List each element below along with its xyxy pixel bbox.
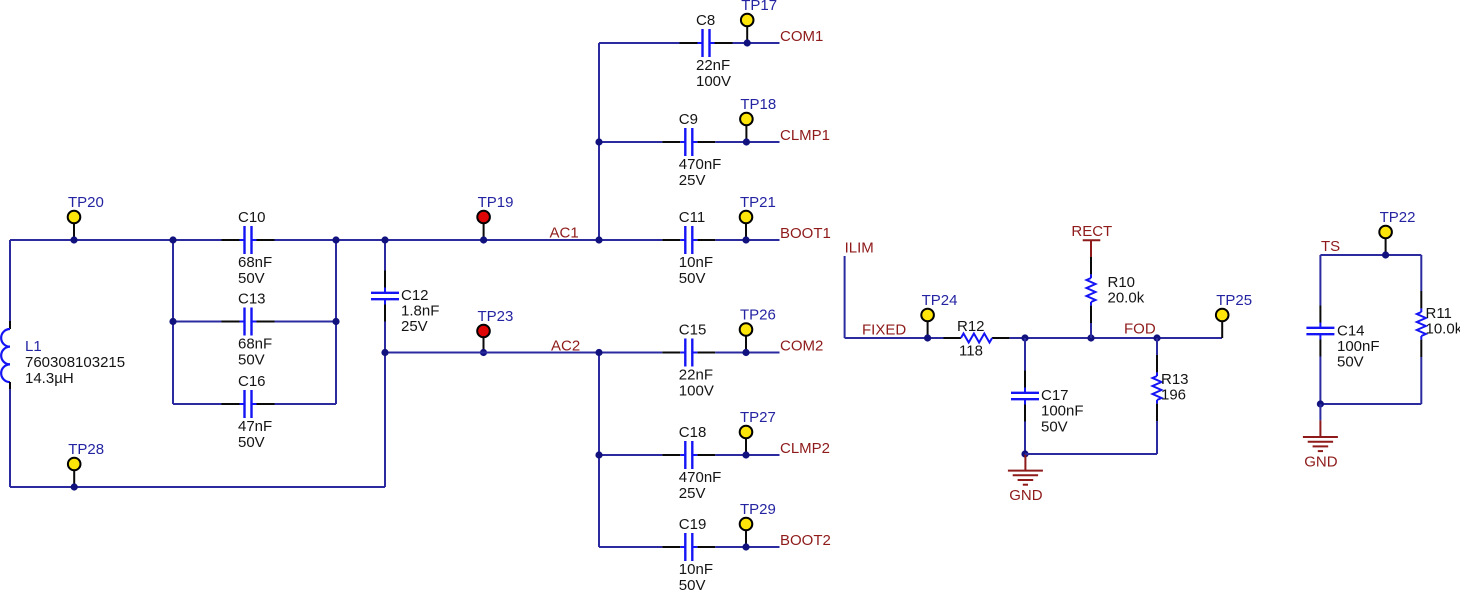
wire TS right rail lower x1421.3 [1420, 357, 1422, 404]
wire left rail upper x10 [9, 240, 11, 321]
junction TP27 tap [742, 451, 749, 458]
junction AC2 from C12 [381, 349, 388, 356]
svg-text:25V: 25V [401, 318, 428, 335]
net label FOD [1124, 321, 1156, 338]
test point TP17 [741, 0, 777, 43]
junction C17 top tap [1021, 334, 1028, 341]
svg-text:50V: 50V [679, 270, 706, 287]
junction TP29 tap [742, 543, 749, 550]
svg-text:196: 196 [1161, 386, 1186, 403]
junction TP26 tap [742, 349, 749, 356]
wire C18 row left y455 [599, 454, 662, 456]
wire bottom rail C17-R13 y454 [1025, 453, 1157, 455]
wire TS right rail upper x1421.3 [1420, 255, 1422, 291]
capacitor C15 [662, 322, 715, 400]
svg-text:COM2: COM2 [780, 338, 823, 355]
svg-text:CLMP2: CLMP2 [780, 440, 830, 457]
power port RECT [1071, 223, 1112, 257]
test point TP21 [740, 194, 776, 240]
svg-text:22nF: 22nF [679, 367, 713, 384]
svg-text:100nF: 100nF [1041, 403, 1084, 420]
svg-text:10nF: 10nF [679, 561, 713, 578]
resistor R11 [1417, 291, 1460, 357]
junction R13 top tap [1153, 334, 1160, 341]
wire TS left rail lower x1320.4 [1319, 357, 1321, 405]
junction C9 branch [595, 138, 602, 145]
svg-text:TP24: TP24 [922, 292, 958, 309]
svg-text:470nF: 470nF [679, 469, 722, 486]
wire AC2 row y352.5 [385, 352, 662, 354]
svg-text:C17: C17 [1041, 387, 1069, 404]
svg-text:14.3µH: 14.3µH [25, 370, 74, 387]
svg-text:C11: C11 [679, 209, 705, 226]
svg-text:50V: 50V [679, 577, 706, 594]
svg-text:BOOT2: BOOT2 [780, 532, 831, 549]
svg-text:C16: C16 [238, 373, 266, 390]
svg-text:TP20: TP20 [68, 194, 104, 211]
ground GND [1303, 420, 1338, 470]
junction C13 right [332, 318, 339, 325]
svg-text:470nF: 470nF [679, 156, 722, 173]
svg-text:118: 118 [959, 342, 983, 359]
junction TP20 tap [70, 236, 77, 243]
svg-text:50V: 50V [238, 352, 265, 369]
junction C17 bottom GND tap [1021, 450, 1028, 457]
svg-text:TP26: TP26 [740, 307, 776, 324]
svg-text:68nF: 68nF [238, 336, 272, 353]
svg-text:C12: C12 [401, 287, 429, 304]
test point TP29 [740, 501, 776, 547]
wire C17 rail lower x1025 [1024, 422, 1026, 455]
wire C13 row right y321.5 [275, 321, 337, 323]
wire C19 row left y547 [599, 546, 662, 548]
capacitor C19 [662, 516, 715, 594]
net label FIXED [862, 321, 906, 338]
wire TS top row y255 [1320, 254, 1421, 256]
resistor R12 [944, 318, 1010, 359]
svg-text:GND: GND [1009, 487, 1043, 504]
svg-text:22nF: 22nF [696, 57, 730, 74]
svg-text:C13: C13 [238, 291, 266, 308]
wire C12 rail lower x385 [384, 322, 386, 488]
wire C9 row left y142 [599, 141, 662, 143]
wire AC2 branch rail x599 [598, 353, 600, 548]
junction TP22 tap [1382, 251, 1389, 258]
wire FIXED row y338 [845, 337, 944, 339]
wire ILIM stub x844.6 [844, 256, 846, 338]
svg-text:100V: 100V [679, 383, 714, 400]
junction TP18 tap [743, 138, 750, 145]
wire top row mid y240 [275, 239, 663, 241]
wire cap bank right rail x336 [335, 240, 337, 404]
svg-text:TS: TS [1321, 238, 1340, 255]
svg-text:L1: L1 [25, 338, 42, 355]
test point TP22 [1379, 209, 1415, 255]
capacitor C17 [1011, 371, 1084, 436]
svg-text:1.8nF: 1.8nF [401, 303, 439, 320]
svg-text:R12: R12 [957, 318, 985, 335]
svg-text:FOD: FOD [1124, 321, 1156, 338]
resistor R10 [1087, 257, 1145, 323]
svg-text:20.0k: 20.0k [1108, 289, 1145, 306]
svg-text:TP27: TP27 [740, 409, 776, 426]
junction TP21 tap [742, 236, 749, 243]
capacitor C10 [222, 209, 275, 287]
wire GND stub x1320.4 [1319, 404, 1321, 420]
net label COM1 [780, 28, 823, 45]
wire C9 row right y142 [715, 141, 779, 143]
wire C18 row right y455 [715, 454, 779, 456]
net label COM2 [780, 338, 823, 355]
capacitor C14 [1306, 306, 1379, 371]
junction TP17 tap [744, 39, 751, 46]
test point TP25 [1216, 292, 1252, 338]
svg-text:760308103215: 760308103215 [25, 354, 125, 371]
junction R10 bottom tap [1087, 334, 1094, 341]
junction cap bank top-right [332, 236, 339, 243]
junction C18 branch [595, 451, 602, 458]
wire cap bank left rail x173 [172, 240, 174, 404]
test point TP27 [740, 409, 776, 455]
svg-text:TP22: TP22 [1380, 209, 1416, 226]
svg-text:TP21: TP21 [740, 194, 776, 211]
wire C17 rail upper x1025 [1024, 338, 1026, 371]
svg-text:100V: 100V [696, 73, 731, 90]
capacitor C8 [680, 12, 733, 90]
wire top row left (net AC1 side) x10-221 y240 [10, 239, 222, 241]
capacitor C11 [662, 209, 715, 287]
net label AC1 [550, 225, 579, 242]
inductor L1 [1, 321, 125, 389]
junction AC1 branch [595, 236, 602, 243]
svg-text:50V: 50V [238, 434, 265, 451]
wire TS left rail upper x1320.4 [1319, 255, 1321, 306]
svg-text:C19: C19 [679, 516, 707, 533]
wire C12 rail upper x385 [384, 240, 386, 271]
net label BOOT2 [780, 532, 831, 549]
svg-text:10nF: 10nF [679, 254, 713, 271]
junction C12 top [381, 236, 388, 243]
svg-text:47nF: 47nF [238, 418, 272, 435]
net label CLMP2 [780, 440, 830, 457]
wire left rail lower x10 [9, 389, 11, 487]
svg-text:GND: GND [1304, 453, 1338, 470]
svg-text:100nF: 100nF [1337, 338, 1380, 355]
test point TP18 [740, 96, 776, 142]
svg-text:TP25: TP25 [1216, 292, 1252, 309]
svg-text:10.0k: 10.0k [1426, 320, 1460, 337]
svg-text:68nF: 68nF [238, 254, 272, 271]
wire C13 row left y321.5 [173, 321, 222, 323]
wire FOD row y338 [1010, 337, 1222, 339]
wire TS bottom rail y404 [1320, 403, 1421, 405]
svg-text:50V: 50V [1337, 354, 1364, 371]
test point TP20 [68, 194, 104, 240]
resistor R13 [1153, 355, 1189, 421]
capacitor C16 [222, 373, 275, 451]
svg-text:TP23: TP23 [478, 308, 514, 325]
svg-text:AC1: AC1 [550, 225, 579, 242]
capacitor C12 [371, 271, 439, 336]
junction TP19 tap [480, 236, 487, 243]
test point TP24 [921, 292, 957, 338]
svg-text:TP17: TP17 [741, 0, 777, 14]
junction TS GND tap [1317, 400, 1324, 407]
svg-text:TP18: TP18 [740, 96, 776, 113]
svg-text:25V: 25V [679, 172, 706, 189]
svg-text:50V: 50V [238, 270, 265, 287]
net label CLMP1 [780, 127, 830, 144]
test point TP19 [477, 194, 513, 240]
svg-text:COM1: COM1 [780, 28, 823, 45]
wire bottom rail y487 [10, 486, 385, 488]
svg-text:C9: C9 [679, 111, 698, 128]
net label AC2 [551, 338, 580, 355]
net label ILIM [845, 239, 874, 256]
wire C16 row left y404 [173, 403, 222, 405]
svg-text:TP29: TP29 [740, 501, 776, 518]
svg-text:50V: 50V [1041, 418, 1068, 435]
net label BOOT1 [780, 225, 831, 242]
ground GND [1008, 454, 1043, 504]
junction AC2 branch [595, 349, 602, 356]
junction TP23 tap [480, 349, 487, 356]
wire R10 to FOD x1091 [1090, 323, 1092, 338]
svg-text:C14: C14 [1337, 323, 1365, 340]
svg-text:CLMP1: CLMP1 [780, 127, 830, 144]
junction TP28 tap [71, 483, 78, 490]
wire C8 row left y43 [599, 42, 680, 44]
test point TP28 [68, 441, 104, 487]
wire R13 rail upper x1157 [1156, 338, 1158, 355]
test point TP23 [477, 308, 513, 353]
capacitor C18 [662, 424, 721, 502]
wire AC1 branch rail x599 [598, 43, 600, 240]
svg-text:C8: C8 [696, 12, 715, 29]
svg-text:25V: 25V [679, 485, 706, 502]
wire C8 row right y43 [733, 42, 780, 44]
wire C15 row right y352.5 [715, 352, 779, 354]
net label TS [1321, 238, 1340, 255]
wire top row right to BOOT1 y240 [715, 239, 779, 241]
svg-text:TP19: TP19 [478, 194, 514, 211]
svg-text:FIXED: FIXED [862, 321, 906, 338]
wire C19 row right y547 [715, 546, 779, 548]
junction TP24 tap [924, 334, 931, 341]
junction C13 left [169, 318, 176, 325]
svg-text:TP28: TP28 [68, 441, 104, 458]
svg-text:BOOT1: BOOT1 [780, 225, 831, 242]
svg-text:RECT: RECT [1071, 223, 1112, 240]
test point TP26 [740, 307, 776, 353]
svg-text:ILIM: ILIM [845, 239, 874, 256]
junction cap bank top-left [169, 236, 176, 243]
svg-text:C10: C10 [238, 209, 266, 226]
capacitor C9 [662, 111, 721, 189]
svg-text:C18: C18 [679, 424, 707, 441]
wire R13 rail lower x1157 [1156, 421, 1158, 454]
wire C16 row right y404 [275, 403, 337, 405]
capacitor C13 [222, 291, 275, 369]
svg-text:C15: C15 [679, 322, 707, 339]
